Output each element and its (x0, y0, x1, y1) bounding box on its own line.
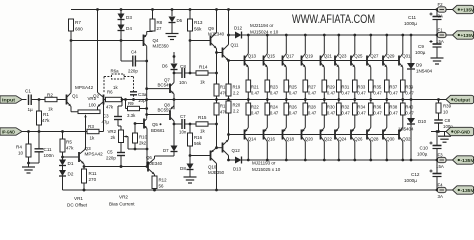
wire top +135V driver rail (71, 9, 438, 11)
wire PNP base bus (227, 133, 399, 140)
svg-text:OP-GND: OP-GND (454, 129, 470, 134)
svg-text:D6: D6 (162, 64, 168, 69)
resistor R10 2k2 (133, 122, 148, 149)
svg-text:47k: 47k (66, 146, 74, 151)
svg-text:R6a: R6a (111, 69, 120, 74)
node Q17 collector (285, 34, 288, 37)
diode D8 with ground (180, 156, 197, 184)
wire Q1 collector column (70, 39, 73, 93)
svg-text:D9: D9 (416, 63, 422, 68)
svg-text:Q13: Q13 (248, 54, 257, 59)
resistor R32 0.47 (337, 100, 351, 128)
transistor Q24 (335, 128, 347, 161)
svg-text:270: 270 (89, 177, 97, 182)
resistor R15 1k (189, 115, 217, 134)
resistor R33 0.47 (353, 67, 367, 101)
svg-text:R34: R34 (357, 105, 365, 110)
svg-text:Q25: Q25 (354, 54, 363, 59)
transistor Q19 (302, 35, 314, 67)
svg-text:1k: 1k (200, 80, 206, 85)
svg-text:MJ21193 or: MJ21193 or (252, 161, 276, 166)
svg-text:R5: R5 (66, 140, 72, 145)
svg-text:27: 27 (157, 26, 162, 31)
svg-text:0.47: 0.47 (405, 91, 414, 96)
label VR2 Bias Current (109, 195, 135, 207)
svg-text:1000µ: 1000µ (404, 21, 417, 26)
transistor Q11 (223, 10, 240, 61)
svg-text:1k: 1k (90, 136, 96, 141)
svg-text:R4: R4 (16, 145, 22, 150)
diode D10 1N5404 (398, 100, 427, 161)
capacitor C3a 10p optional (130, 77, 147, 104)
svg-text:IP-GND: IP-GND (2, 129, 15, 134)
svg-text:VR2: VR2 (119, 195, 128, 200)
wire -135V output collector rail (247, 159, 438, 161)
svg-text:D2: D2 (68, 172, 74, 177)
diode D12 (229, 26, 248, 39)
node R4 branch (27, 130, 30, 133)
label MJ21193 (252, 161, 281, 173)
diode D9 1N5404 (407, 34, 433, 100)
resistor R23 0.47 (265, 67, 279, 101)
potentiometer VR1 100 (78, 96, 100, 154)
svg-text:47k: 47k (106, 104, 114, 109)
transistor Q27 (367, 35, 379, 67)
svg-text:F2: F2 (438, 2, 444, 7)
svg-text:10n: 10n (179, 130, 187, 135)
capacitor C8 10n (174, 64, 190, 85)
capacitor C9 100u (415, 34, 442, 58)
svg-text:R27: R27 (308, 85, 316, 90)
svg-text:F1: F1 (438, 28, 444, 33)
transistor Q7 BC549 (158, 70, 176, 110)
svg-text:WWW.AFIATA.COM: WWW.AFIATA.COM (292, 12, 375, 26)
svg-text:1k: 1k (200, 129, 206, 134)
transistor Q18 (283, 128, 295, 161)
svg-text:VR1: VR1 (74, 196, 83, 201)
transistor Q3 MPSA42 (79, 146, 103, 169)
svg-text:Q17: Q17 (286, 54, 295, 59)
svg-text:D3: D3 (126, 15, 132, 20)
resistor R18 470 (214, 98, 228, 124)
node R9 tap (124, 98, 127, 101)
svg-text:0.47: 0.47 (327, 111, 336, 116)
transistor Q14 (245, 128, 257, 161)
svg-text:R33: R33 (357, 85, 365, 90)
capacitor C7 10n (173, 114, 190, 135)
resistor R6a 1k optional (104, 69, 134, 94)
wire Q4 base line (71, 40, 143, 42)
svg-text:R6: R6 (107, 90, 113, 95)
transistor Q5 BD681 (135, 119, 165, 167)
svg-text:100µ: 100µ (417, 152, 428, 157)
svg-text:VR1: VR1 (88, 96, 97, 101)
resistor R12 56 (152, 174, 167, 191)
transistor Q22 (321, 128, 333, 161)
node Q32 collector (401, 159, 404, 162)
svg-text:R16: R16 (194, 135, 203, 140)
resistor R2 (45, 93, 66, 112)
transistor Q12 (223, 140, 241, 160)
tag -135V output stage (453, 156, 474, 164)
svg-text:R23: R23 (270, 85, 278, 90)
transistor Q26 (351, 128, 363, 161)
svg-text:R40: R40 (405, 105, 413, 110)
capacitor C10 100u (417, 132, 442, 161)
label VR1 DC Offset (67, 196, 88, 208)
svg-text:R13: R13 (194, 20, 203, 25)
ground C9 (431, 58, 444, 64)
svg-text:+135V: +135V (461, 7, 474, 12)
diode D4 (118, 20, 133, 42)
transistor Q6 MJE340 (146, 155, 163, 174)
node D9 output (410, 98, 413, 101)
transistor Q23 (335, 35, 347, 67)
transistor Q17 (283, 35, 295, 67)
ground input filter (22, 163, 35, 173)
diode D5 with ground (166, 10, 183, 40)
node driver rail caps (96, 8, 218, 11)
tag +135V output stage (453, 31, 474, 39)
svg-text:R15: R15 (198, 115, 207, 120)
transistor Q1 (67, 93, 79, 112)
svg-text:15A: 15A (436, 39, 444, 44)
wire op-gnd bus (431, 130, 449, 133)
label MJ21194 (250, 23, 279, 35)
svg-text:Bias Current: Bias Current (109, 202, 135, 207)
svg-text:C11: C11 (408, 15, 417, 20)
svg-text:C3a: C3a (138, 92, 147, 97)
svg-text:3A: 3A (438, 194, 443, 199)
fuse F3 15A (436, 153, 453, 170)
resistor R31 0.47 (337, 67, 351, 101)
svg-text:R14: R14 (199, 65, 208, 70)
resistor R21 0.47 (246, 67, 260, 101)
node Q28 collector (369, 159, 372, 162)
svg-text:C11: C11 (44, 147, 53, 152)
svg-text:R2: R2 (47, 93, 53, 98)
transistor Q10 MJE350 (208, 124, 225, 190)
fuse F1 15A (436, 28, 453, 45)
transistor Q28 (367, 128, 379, 161)
svg-text:C8: C8 (445, 118, 451, 123)
svg-text:56k: 56k (194, 27, 202, 32)
svg-text:+135V: +135V (461, 33, 474, 38)
svg-text:BD681: BD681 (151, 128, 165, 133)
node Q15 collector (266, 34, 269, 37)
resistor R8 27 (150, 8, 163, 31)
transistor Q21 (321, 35, 333, 67)
node Q10 emitter (215, 123, 222, 150)
node Q27 collector (369, 34, 372, 37)
svg-text:R31: R31 (341, 85, 349, 90)
wire output bus (104, 99, 453, 101)
svg-text:R10: R10 (139, 135, 148, 140)
resistor R25 0.47 (284, 67, 298, 101)
svg-text:100: 100 (89, 103, 97, 108)
svg-text:MPSA42: MPSA42 (85, 152, 104, 157)
resistor R29 0.47 (322, 67, 336, 101)
svg-text:C9: C9 (418, 44, 424, 49)
svg-text:10: 10 (18, 151, 24, 156)
resistor R35 0.47 (369, 67, 383, 101)
node Q10 base (189, 154, 210, 157)
svg-text:0.47: 0.47 (251, 111, 260, 116)
transistor Q4 MJE350 (144, 32, 170, 49)
node Q23 collector (337, 34, 340, 37)
svg-text:F4: F4 (438, 183, 444, 188)
resistor R7 680 (69, 19, 84, 41)
svg-text:0.47: 0.47 (357, 111, 366, 116)
svg-text:0.47: 0.47 (389, 91, 398, 96)
svg-text:D12: D12 (234, 26, 243, 31)
label MPSA42 pair (75, 85, 94, 90)
resistor R17 470 (214, 53, 228, 100)
svg-text:-135V: -135V (461, 188, 474, 193)
svg-text:VR2: VR2 (108, 129, 117, 134)
output tag (446, 95, 474, 103)
resistor R5 47k (60, 130, 74, 157)
svg-text:C10: C10 (420, 146, 429, 151)
resistor R36 0.47 (369, 100, 383, 128)
svg-text:F3: F3 (438, 153, 444, 158)
svg-text:Q3: Q3 (85, 146, 92, 151)
fuse F2 3A (438, 2, 453, 19)
svg-text:0.47: 0.47 (270, 111, 279, 116)
node Q14 collector (247, 159, 250, 162)
svg-text:2.2: 2.2 (233, 91, 239, 96)
node input-R1 (38, 98, 41, 101)
resistor R40 0.47 (401, 100, 415, 128)
svg-text:Q10: Q10 (208, 165, 217, 170)
capacitor C11 100n (27, 132, 54, 165)
wire feedback to Q2 base (103, 105, 105, 132)
resistor R16 56k (188, 124, 203, 156)
svg-text:0.47: 0.47 (405, 111, 414, 116)
wire Q8 base line (145, 113, 169, 116)
svg-text:R8: R8 (157, 20, 163, 25)
svg-text:0.47: 0.47 (327, 91, 336, 96)
svg-text:R1: R1 (43, 112, 49, 117)
svg-text:R39: R39 (443, 104, 452, 109)
fuse F4 3A (438, 183, 453, 200)
svg-text:D8: D8 (180, 166, 186, 171)
node Q16 collector (266, 159, 269, 162)
diode D13 (227, 157, 247, 172)
svg-text:680: 680 (75, 27, 83, 32)
transistor Q29 (383, 35, 395, 67)
node Q30 collector (385, 159, 388, 162)
potentiometer VR2 2k (108, 129, 149, 150)
svg-text:R39: R39 (405, 85, 413, 90)
svg-text:Q16: Q16 (267, 137, 276, 142)
svg-text:R9: R9 (128, 101, 134, 106)
svg-text:Q1: Q1 (72, 94, 79, 99)
transistor Q16 (264, 128, 276, 161)
capacitor C12 1000u (404, 160, 442, 191)
wire Q6 base line (84, 165, 148, 168)
svg-text:2k: 2k (111, 135, 116, 140)
svg-text:220p: 220p (106, 156, 116, 161)
transistor Q30 (383, 128, 395, 161)
svg-text:0.47: 0.47 (270, 91, 279, 96)
node Q20 collector (304, 159, 307, 162)
svg-text:R38: R38 (389, 105, 397, 110)
transistor Q31 (399, 35, 411, 67)
capacitor C5 220p (106, 143, 125, 168)
node Q3 base (61, 156, 78, 159)
svg-text:2k2: 2k2 (139, 141, 147, 146)
svg-text:DC Offset: DC Offset (67, 203, 88, 208)
svg-text:D10: D10 (418, 119, 427, 124)
svg-text:10: 10 (443, 110, 448, 115)
svg-text:Q19: Q19 (305, 54, 314, 59)
node Q9 emitter (215, 51, 222, 54)
svg-text:Q9: Q9 (208, 26, 214, 31)
svg-text:1k: 1k (113, 85, 118, 90)
svg-text:1000µ: 1000µ (404, 178, 417, 183)
svg-text:Q21: Q21 (324, 54, 333, 59)
svg-text:C4: C4 (131, 50, 137, 55)
capacitor C1 (25, 89, 45, 113)
svg-text:MJ21194 or: MJ21194 or (250, 23, 274, 28)
svg-text:R11: R11 (89, 171, 98, 176)
svg-text:56k: 56k (194, 141, 202, 146)
capacitor C8 100n zobel (434, 118, 453, 132)
svg-text:R32: R32 (341, 105, 349, 110)
svg-text:0.47: 0.47 (308, 91, 317, 96)
op-gnd tag (446, 127, 474, 135)
svg-text:47k: 47k (42, 118, 50, 123)
svg-text:Q29: Q29 (386, 54, 395, 59)
transistor Q25 (351, 35, 363, 67)
svg-text:0.47: 0.47 (373, 111, 382, 116)
svg-text:C1: C1 (25, 89, 31, 94)
svg-text:10n: 10n (179, 80, 187, 85)
transistor Q32 (399, 128, 411, 161)
svg-text:0.47: 0.47 (251, 91, 260, 96)
svg-text:C7: C7 (180, 114, 186, 119)
svg-text:56: 56 (159, 184, 164, 189)
diode D2 (59, 166, 74, 191)
svg-text:R12: R12 (159, 178, 168, 183)
svg-text:-135V: -135V (461, 158, 474, 163)
resistor R4 10 (16, 132, 31, 164)
resistor R28 0.47 (303, 100, 317, 128)
transistor Q9 MJE340 (208, 10, 225, 53)
svg-text:Q28: Q28 (370, 137, 379, 142)
resistor R3 1k (87, 124, 104, 141)
svg-text:0.47: 0.47 (341, 91, 350, 96)
svg-text:BC549: BC549 (158, 83, 172, 88)
svg-text:0.47: 0.47 (357, 91, 366, 96)
svg-text:R20: R20 (233, 103, 241, 108)
resistor R30 0.47 (322, 100, 336, 128)
diode D7 (155, 146, 178, 157)
svg-text:47µ: 47µ (102, 120, 110, 125)
tag -135V driver (453, 186, 474, 194)
svg-text:0.47: 0.47 (373, 91, 382, 96)
diode D3 (118, 10, 133, 21)
svg-text:Q30: Q30 (386, 137, 395, 142)
resistor R38 0.47 (385, 100, 399, 128)
wire VAS column (145, 46, 148, 118)
svg-text:D4: D4 (126, 26, 132, 31)
resistor R6 47k feedback (104, 90, 126, 110)
node Q22 collector (323, 159, 326, 162)
svg-text:0.47: 0.47 (341, 111, 350, 116)
svg-text:D1: D1 (68, 161, 74, 166)
svg-text:1N5404: 1N5404 (416, 69, 433, 74)
node driver rail joins (227, 8, 230, 36)
tag +135V top (453, 5, 474, 13)
resistor R24 0.47 (265, 100, 279, 128)
svg-text:Q12: Q12 (232, 148, 241, 153)
svg-text:Input: Input (2, 97, 16, 102)
wire +135V output collector rail (247, 34, 438, 36)
svg-text:D13: D13 (233, 167, 242, 172)
node spreader-output (173, 98, 176, 101)
resistor R26 0.47 (284, 100, 298, 128)
svg-text:R37: R37 (389, 85, 397, 90)
transistor Q13 (245, 35, 257, 67)
capacitor C4 220p (121, 41, 147, 74)
svg-text:2.2: 2.2 (233, 109, 239, 114)
title text (292, 12, 375, 26)
resistor R39 0.47 (401, 67, 415, 101)
node Q25 collector (353, 34, 356, 37)
resistor R20 2.2 (226, 98, 241, 134)
svg-text:Q32: Q32 (402, 137, 411, 142)
transistor Q8 BC559 (158, 103, 175, 146)
svg-text:R22: R22 (251, 105, 259, 110)
node R1 bottom (38, 130, 41, 133)
svg-text:Q20: Q20 (305, 137, 314, 142)
diode D6 (162, 52, 178, 70)
svg-text:C5: C5 (107, 150, 113, 155)
ip-gnd tag (0, 128, 87, 135)
svg-text:R7: R7 (75, 20, 81, 25)
node Q26 collector (353, 159, 356, 162)
svg-text:100µ: 100µ (415, 50, 426, 55)
svg-text:R35: R35 (373, 85, 381, 90)
node Q9 base (189, 39, 210, 73)
transistor Q15 (264, 35, 276, 67)
svg-text:0.47: 0.47 (289, 111, 298, 116)
resistor R13 56k (188, 10, 203, 41)
svg-text:0.47: 0.47 (289, 91, 298, 96)
svg-text:D7: D7 (163, 148, 169, 153)
svg-text:0.47: 0.47 (389, 111, 398, 116)
svg-text:Q31: Q31 (402, 54, 411, 59)
node Q21 collector (323, 34, 326, 37)
svg-text:Q14: Q14 (248, 137, 257, 142)
svg-text:R30: R30 (327, 105, 335, 110)
resistor R1 (37, 100, 51, 132)
svg-text:1µ: 1µ (28, 107, 34, 112)
capacitor C3 47u (102, 98, 124, 130)
svg-text:1k: 1k (48, 107, 54, 112)
svg-text:R21: R21 (251, 85, 259, 90)
svg-text:MJE350: MJE350 (153, 43, 170, 48)
transistor Q20 (302, 128, 314, 161)
svg-text:Q27: Q27 (370, 54, 379, 59)
node Q18 collector (285, 159, 288, 162)
svg-text:C12: C12 (411, 172, 420, 177)
svg-text:0.47: 0.47 (308, 111, 317, 116)
svg-text:100n: 100n (44, 153, 55, 158)
wire -135V driver rail (63, 189, 438, 191)
